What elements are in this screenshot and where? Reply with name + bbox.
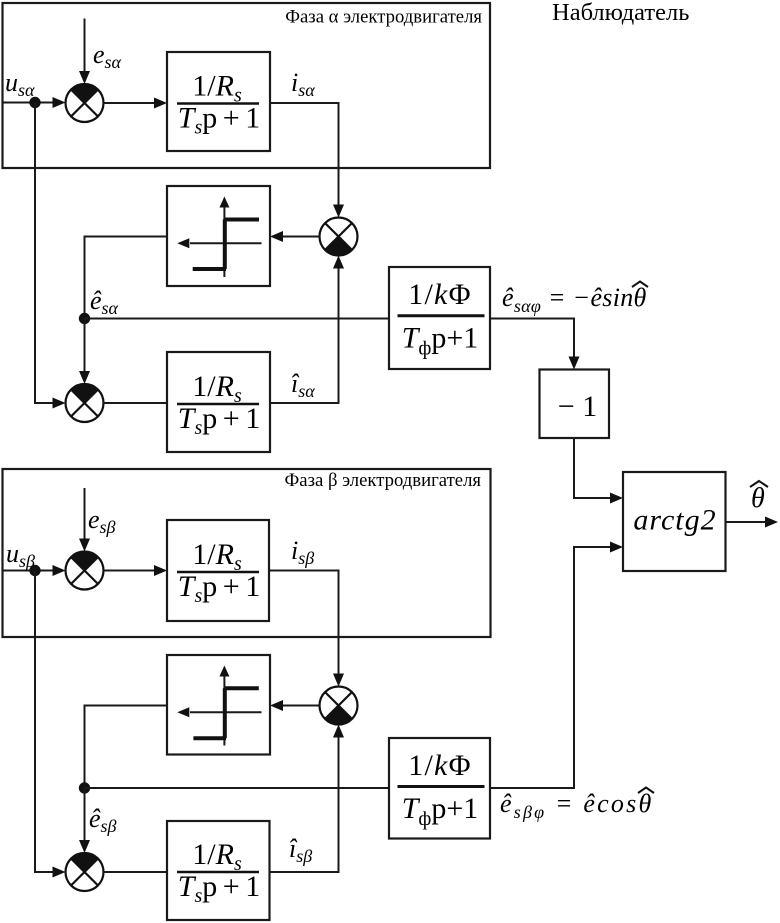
block B4 1/Rs over Tsp+1 [167,821,270,920]
svg-text:Tфp+1: Tфp+1 [402,792,479,830]
summing junction S1 [66,84,104,122]
wire u_sb input [3,570,59,572]
summing junction S3 [66,384,104,422]
svg-text:1/kΦ: 1/kΦ [408,278,471,311]
svg-text:− 1: − 1 [558,390,597,423]
label theta^ [750,481,768,514]
node u_sa branch [29,97,40,108]
svg-text:Фаза α электродвигателя: Фаза α электродвигателя [285,7,482,28]
wire node e^_sa to K1 [85,318,390,320]
relay block V2 [167,655,270,755]
label e^_sbf = e^ cos theta^ [500,788,654,823]
wire K2 to arctg2 [490,547,611,788]
relay block V1 [167,186,270,286]
wire theta^ output [726,521,766,523]
wire u_sa branch to S3 [35,103,58,404]
wire i_sb B3 to S5 [269,571,339,675]
wire node e^_sb to K2 [85,787,390,789]
svg-text:θ: θ [751,483,765,514]
wire u_sa input [3,102,59,104]
svg-text:Tsp + 1: Tsp + 1 [178,102,259,139]
wire i^_sb B4 to S5 [270,737,339,872]
wire K1 to M1 [490,319,574,358]
wire S4 to B3 [104,570,156,572]
wire S1 to B1 [104,102,156,104]
block K2 1/kF over TFp+1 [389,738,490,839]
summing junction S6 [66,853,104,891]
wire relay V1 to node e^_sa [85,237,168,319]
node e^_sa [79,313,90,324]
svg-text:Наблюдатель: Наблюдатель [552,0,689,26]
block K1 1/kF over TFp+1 [389,267,490,369]
wire S6 to B4 [104,871,168,873]
block B2 1/Rs over Tsp+1 [167,352,270,452]
wire node to S3 [84,319,86,377]
block A1 arctg2 [623,472,726,571]
block B3 1/Rs over Tsp+1 [167,520,269,621]
wire S3 to B2 [104,402,168,404]
wire M1 to arctg2 [574,438,611,498]
frame: phase alpha motor box [3,3,491,168]
wire e_sa into S1 [84,19,86,77]
block B1 1/Rs over Tsp+1 [167,52,270,151]
svg-text:Фаза β электродвигателя: Фаза β электродвигателя [285,470,482,491]
label e^_saf = -e^ sin theta^ [502,282,648,317]
wire e_sb into S4 [84,488,86,544]
summing junction S4 [66,552,104,590]
frame: phase beta motor box [3,469,491,637]
wire i_sa B1 to S2 [270,103,339,205]
summing junction S2 [320,218,358,256]
svg-text:Tsp + 1: Tsp + 1 [178,570,259,607]
svg-text:Tsp + 1: Tsp + 1 [178,402,259,439]
svg-text:arctg2: arctg2 [633,504,716,537]
svg-text:Tsp + 1: Tsp + 1 [178,870,259,907]
summing junction S5 [320,687,358,725]
node e^_sb [79,782,90,793]
block M1 minus one [540,370,610,439]
wire S2 to relay V1 [282,236,320,238]
node u_sb branch [29,565,40,576]
wire i^_sa B2 to S2 [270,268,339,403]
wire S5 to relay V2 [282,705,320,707]
svg-text:Tфp+1: Tфp+1 [402,322,479,360]
wire node to S6 [84,788,86,845]
wire relay V2 to node e^_sb [85,706,168,789]
svg-text:1/kΦ: 1/kΦ [408,749,471,782]
wire u_sb branch to S6 [35,571,58,873]
